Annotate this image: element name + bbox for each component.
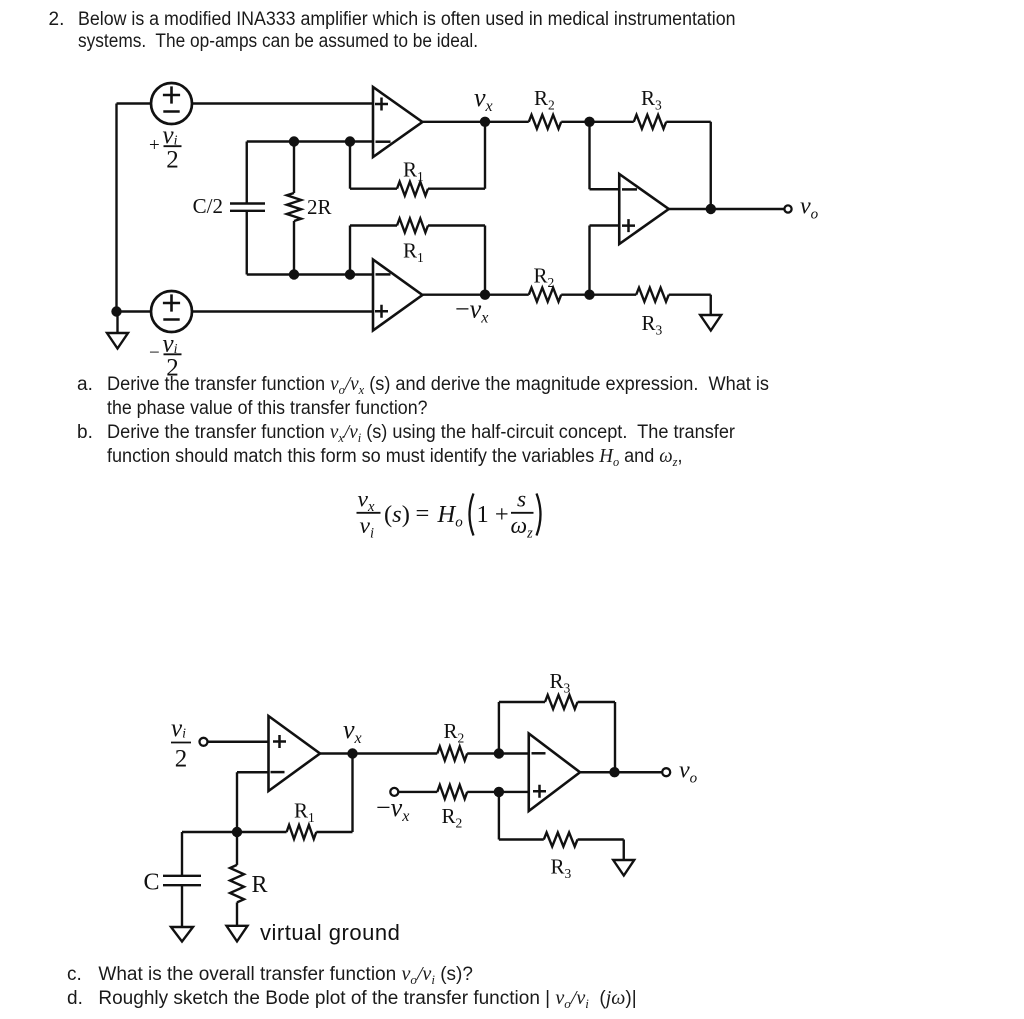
svg-text:=: = <box>416 500 430 527</box>
svg-text:s: s <box>517 487 526 513</box>
svg-text:1 +: 1 + <box>477 501 509 528</box>
svg-text:(s): (s) <box>384 501 410 528</box>
svg-text:ωz: ωz <box>511 513 534 542</box>
svg-text:Ho: Ho <box>437 501 464 531</box>
svg-text:vi: vi <box>360 513 374 542</box>
svg-text:vx: vx <box>358 487 375 516</box>
